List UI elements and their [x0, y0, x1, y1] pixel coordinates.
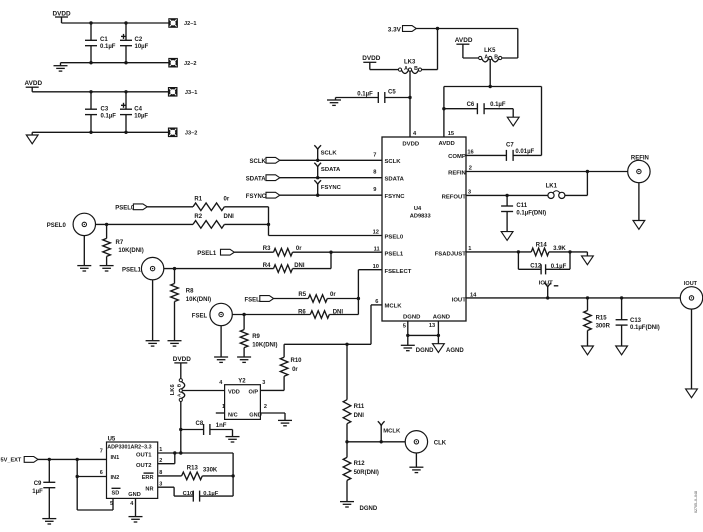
- tag PSEL0: [115, 204, 147, 212]
- U4 pin 9 FSYNC: [373, 187, 405, 200]
- connector FSEL BNC: [192, 303, 233, 325]
- wire J2 top rail: [62, 22, 169, 24]
- capacitor C11: [501, 195, 546, 231]
- svg-text:8: 8: [159, 470, 162, 476]
- tag FSEL: [245, 296, 274, 304]
- node C1 bottom: [89, 61, 92, 64]
- svg-text:AGND: AGND: [446, 348, 464, 354]
- svg-text:3: 3: [159, 481, 162, 487]
- svg-text:R6: R6: [298, 309, 306, 315]
- svg-text:LK5: LK5: [484, 48, 496, 54]
- svg-text:C1: C1: [100, 37, 108, 43]
- svg-text:ADP3301AR2–3.3: ADP3301AR2–3.3: [107, 445, 151, 451]
- capacitor C4: [120, 92, 148, 133]
- wire J3 bottom rail: [32, 131, 168, 133]
- svg-text:0.1µF: 0.1µF: [551, 264, 567, 270]
- node FSYNC tp: [316, 194, 319, 197]
- svg-text:FSYNC: FSYNC: [321, 185, 342, 191]
- svg-text:02705–0–048: 02705–0–048: [694, 491, 698, 513]
- power AVDD (J3 block): [25, 80, 43, 92]
- node SCLK tp: [316, 159, 319, 162]
- svg-text:3.9K: 3.9K: [553, 246, 566, 252]
- svg-text:FSYNC: FSYNC: [385, 194, 406, 200]
- svg-text:9: 9: [373, 187, 376, 193]
- wire FSYNC: [280, 194, 382, 196]
- svg-text:LK1: LK1: [546, 184, 558, 190]
- node OUT1 b: [179, 451, 182, 454]
- svg-text:FSELECT: FSELECT: [385, 269, 412, 275]
- node C2 top: [124, 21, 127, 24]
- svg-text:U5: U5: [108, 436, 116, 442]
- svg-text:DGND: DGND: [403, 314, 420, 320]
- wire MCLK bottom: [347, 441, 405, 443]
- U4 pin 10 FSELECT: [373, 264, 412, 275]
- svg-text:IN1: IN1: [111, 455, 120, 461]
- svg-text:1: 1: [468, 246, 471, 252]
- U4 pin 8 SDATA: [373, 169, 404, 182]
- tag 3.3V: [388, 26, 417, 34]
- regulator U5 body: [107, 436, 158, 498]
- node C3 bottom: [89, 131, 92, 134]
- svg-text:IN2: IN2: [111, 475, 120, 481]
- ground DGND: [401, 335, 434, 353]
- node R13 right: [231, 474, 234, 477]
- U5 pin 5 SD: [110, 488, 121, 507]
- svg-text:0.1µF: 0.1µF: [357, 92, 373, 98]
- node R1-R2: [267, 223, 270, 226]
- wire AGND pin 13: [437, 321, 439, 335]
- wire ERR to R13: [158, 475, 182, 477]
- capacitor C13: [616, 298, 660, 346]
- svg-text:PSEL0: PSEL0: [115, 206, 135, 212]
- svg-text:C9: C9: [34, 481, 42, 487]
- wire R4 to node: [293, 252, 332, 268]
- svg-text:DNI: DNI: [354, 413, 365, 419]
- node R7: [105, 223, 108, 226]
- svg-text:SDATA: SDATA: [246, 177, 266, 183]
- node C2 bottom: [124, 61, 127, 64]
- svg-text:FSADJUST: FSADJUST: [435, 251, 466, 257]
- wire R6 to node: [329, 314, 358, 316]
- svg-text:0r: 0r: [296, 246, 302, 252]
- svg-text:SCLK: SCLK: [385, 159, 402, 165]
- wire REFOUT: [466, 194, 548, 196]
- node LK1-REFIN: [586, 170, 589, 173]
- capacitor C8: [181, 421, 233, 435]
- wire LK6 to Y2 VDD: [182, 390, 224, 392]
- svg-text:FSEL: FSEL: [192, 314, 208, 320]
- connector IOUT BNC: [680, 281, 702, 309]
- svg-text:0.01µF: 0.01µF: [515, 149, 534, 155]
- resistor R4: [263, 263, 305, 272]
- wire Y2 output: [260, 389, 284, 391]
- ground R8: [168, 341, 182, 346]
- svg-text:13: 13: [429, 323, 435, 329]
- wire PSEL0 tag to R1: [147, 206, 193, 208]
- U4 pin 6 MCLK: [375, 299, 402, 309]
- svg-text:2: 2: [469, 166, 472, 172]
- wire 3.3V to LK3-B: [421, 29, 437, 70]
- wire SCLK: [280, 159, 382, 161]
- svg-text:11: 11: [374, 246, 380, 252]
- U4 pin 11 PSEL1: [374, 246, 404, 257]
- U4 pin 5 DGND: [403, 314, 421, 329]
- svg-text:AVDD: AVDD: [25, 80, 43, 87]
- svg-text:SCLK: SCLK: [250, 159, 267, 165]
- ground R15: [582, 346, 594, 355]
- capacitor C12: [518, 252, 570, 275]
- svg-text:N/C: N/C: [228, 412, 238, 418]
- U4 pin 7 SCLK: [373, 152, 401, 165]
- svg-text:R3: R3: [263, 246, 271, 252]
- testpoint MCLK: [378, 421, 401, 442]
- svg-text:6: 6: [375, 299, 378, 305]
- wire PSEL1 BNC to R4: [164, 268, 274, 270]
- node MCLK tp: [380, 440, 383, 443]
- node C3 top: [89, 90, 92, 93]
- svg-text:REFIN: REFIN: [448, 171, 466, 177]
- wire DVDD to LK3-A: [370, 69, 399, 71]
- connector J3-1: [168, 88, 197, 97]
- svg-text:C11: C11: [516, 203, 527, 209]
- ground C13: [616, 346, 628, 355]
- wire J3 top rail: [32, 91, 168, 93]
- wire LK5 to AVDD net: [489, 60, 491, 87]
- ground DGND R12: [340, 502, 378, 512]
- resistor R9: [240, 315, 277, 358]
- svg-text:AVDD: AVDD: [455, 37, 473, 44]
- capacitor C6: [444, 102, 513, 114]
- svg-text:10K(DNI): 10K(DNI): [252, 342, 277, 348]
- Y2 pin labels: [219, 380, 267, 418]
- capacitor C7: [466, 143, 542, 161]
- svg-text:7: 7: [373, 152, 376, 158]
- svg-text:PSEL0: PSEL0: [47, 223, 67, 229]
- ground REFIN BNC: [633, 183, 645, 230]
- wire FSEL BNC to R6: [232, 314, 310, 316]
- tag SDATA: [246, 175, 280, 183]
- ground FSADJUST: [570, 252, 593, 265]
- wire AVDD to LK5-A: [463, 57, 479, 59]
- svg-text:C8: C8: [196, 421, 204, 427]
- svg-text:DVDD: DVDD: [173, 356, 191, 363]
- U4 pin 12 PSEL0: [373, 229, 404, 240]
- svg-text:C10: C10: [183, 491, 194, 497]
- svg-text:C12: C12: [530, 264, 542, 270]
- svg-text:0r: 0r: [292, 367, 298, 373]
- wire PSEL1 tag to R3: [234, 251, 273, 253]
- ground C8: [226, 430, 240, 443]
- svg-text:R15: R15: [596, 316, 608, 322]
- node C13: [620, 296, 623, 299]
- svg-text:0.1µF: 0.1µF: [100, 44, 116, 50]
- U5 pin 1 OUT1: [136, 447, 162, 458]
- node R8: [173, 267, 176, 270]
- svg-text:ERR: ERR: [142, 475, 154, 481]
- svg-text:C6: C6: [467, 102, 475, 108]
- svg-text:MCLK: MCLK: [385, 303, 403, 309]
- svg-text:R13: R13: [187, 466, 199, 472]
- wire SDATA: [280, 177, 382, 179]
- svg-text:R5: R5: [298, 292, 306, 298]
- tag PSEL1: [197, 249, 234, 257]
- svg-text:O/P: O/P: [249, 390, 259, 396]
- tag FSYNC: [246, 192, 280, 200]
- wire FSADJUST: [466, 251, 531, 253]
- capacitor C3: [85, 92, 116, 133]
- svg-text:J3–1: J3–1: [185, 90, 197, 96]
- link LK5: [479, 48, 502, 62]
- U5 pin 7 IN1: [100, 448, 119, 461]
- resistor R10: [280, 344, 302, 390]
- node R14 left: [517, 250, 520, 253]
- svg-text:10K(DNI): 10K(DNI): [118, 248, 143, 254]
- svg-text:1nF: 1nF: [216, 423, 227, 429]
- svg-text:PSEL1: PSEL1: [385, 251, 404, 257]
- op-amp U4 AD9833 body: [382, 137, 466, 321]
- svg-text:12: 12: [373, 229, 379, 235]
- U4 pin 13 AGND: [429, 314, 450, 329]
- wire OUT2: [158, 453, 175, 464]
- svg-text:LK6: LK6: [170, 384, 176, 396]
- capacitor C1: [85, 23, 116, 63]
- svg-text:SDATA: SDATA: [385, 176, 405, 182]
- node R14 right: [568, 250, 571, 253]
- wire FSELECT vertical: [358, 270, 382, 315]
- tag SCLK: [250, 157, 280, 165]
- power AVDD (LK5): [455, 37, 473, 58]
- svg-text:C13: C13: [630, 318, 642, 324]
- svg-text:FSEL: FSEL: [245, 298, 261, 304]
- U5 pin 4 GND: [128, 492, 140, 507]
- ground C5: [327, 98, 341, 106]
- svg-text:R9: R9: [252, 334, 260, 340]
- svg-text:MCLK: MCLK: [383, 428, 401, 434]
- resistor R12: [343, 442, 379, 502]
- resistor R8: [171, 269, 211, 341]
- wire DGND pin 5: [407, 321, 409, 335]
- ground R7: [100, 266, 114, 271]
- svg-text:AVDD: AVDD: [439, 141, 455, 147]
- wire to pin 12: [269, 235, 383, 237]
- svg-text:7: 7: [100, 448, 103, 454]
- wire SD: [77, 477, 113, 511]
- link LK1: [546, 184, 565, 199]
- resistor R2: [193, 214, 234, 228]
- connector PSEL1 BNC: [122, 257, 164, 279]
- svg-text:B: B: [414, 66, 418, 72]
- svg-text:Y2: Y2: [238, 379, 246, 385]
- node AGND: [437, 334, 440, 337]
- wire MCLK pin 6: [284, 305, 382, 344]
- svg-text:SCLK: SCLK: [321, 151, 338, 157]
- ground C6: [507, 109, 519, 126]
- ground FSEL BNC: [214, 326, 228, 363]
- svg-text:R8: R8: [186, 288, 194, 294]
- wire IOUT: [466, 297, 680, 299]
- capacitor C10: [183, 491, 219, 502]
- wire DGND-AGND: [408, 334, 439, 336]
- ground AGND: [433, 335, 465, 353]
- svg-text:330K: 330K: [203, 467, 218, 473]
- svg-text:PSEL1: PSEL1: [197, 251, 217, 257]
- svg-text:REFIN: REFIN: [631, 155, 649, 161]
- node C5: [408, 96, 411, 99]
- svg-text:IOUT: IOUT: [539, 280, 553, 286]
- resistor R13: [182, 466, 218, 480]
- ground C11: [501, 232, 513, 241]
- svg-text:DNI: DNI: [224, 214, 235, 220]
- wire LK6 down: [180, 402, 182, 454]
- svg-text:IOUT: IOUT: [684, 281, 698, 287]
- node IN2 branch: [76, 458, 79, 461]
- wire FSEL tag to R5: [274, 298, 309, 300]
- svg-text:R2: R2: [194, 214, 202, 220]
- svg-text:2: 2: [159, 458, 162, 464]
- testpoint SDATA: [314, 163, 341, 178]
- node DGND: [406, 334, 409, 337]
- resistor R1: [193, 196, 230, 210]
- svg-text:R1: R1: [194, 196, 202, 202]
- svg-text:R7: R7: [116, 240, 124, 246]
- svg-text:GND: GND: [249, 412, 261, 418]
- node R5-R6: [357, 297, 360, 300]
- U4 pin 16 COMP: [448, 150, 474, 161]
- svg-text:C4: C4: [134, 106, 142, 112]
- svg-text:J2–2: J2–2: [184, 61, 196, 67]
- svg-text:B: B: [494, 55, 498, 61]
- capacitor C5: [336, 90, 411, 104]
- ground C9: [42, 519, 56, 524]
- svg-text:0.1µF: 0.1µF: [101, 113, 117, 119]
- U5 pin 6 IN2: [100, 470, 119, 481]
- svg-text:3: 3: [468, 189, 471, 195]
- ground PSEL0 BNC: [77, 236, 91, 271]
- capacitor C2: [120, 23, 149, 63]
- connector J3-2: [168, 128, 197, 137]
- node C8: [179, 428, 182, 431]
- svg-text:0.1µF(DNI): 0.1µF(DNI): [630, 325, 660, 331]
- svg-text:5: 5: [403, 323, 406, 329]
- wire R5 to node: [327, 298, 358, 300]
- ground J3: [26, 132, 38, 144]
- ground U5 GND: [129, 498, 143, 522]
- node OUT1 a: [173, 451, 176, 454]
- svg-text:A: A: [484, 55, 488, 61]
- svg-text:LK3: LK3: [404, 60, 416, 66]
- wire J2 bottom rail: [61, 62, 169, 64]
- wire REFIN: [466, 171, 628, 173]
- wire 3.3V to LK5-B: [502, 29, 518, 59]
- resistor R5: [298, 292, 336, 302]
- wire AVDD net left to pin 15: [443, 87, 445, 138]
- node C9: [48, 458, 51, 461]
- power DVDD (Y2): [173, 356, 191, 378]
- svg-text:OUT2: OUT2: [136, 463, 151, 469]
- svg-text:1µF: 1µF: [32, 489, 43, 495]
- wire R14 right: [549, 251, 570, 253]
- svg-text:8: 8: [373, 169, 376, 175]
- svg-text:R4: R4: [263, 263, 271, 269]
- svg-text:3: 3: [262, 380, 265, 386]
- connector REFIN BNC: [628, 155, 650, 182]
- capacitor C9: [32, 459, 55, 518]
- ground J2: [54, 63, 68, 71]
- svg-text:15: 15: [448, 131, 454, 137]
- U5 pin 2 OUT2: [136, 458, 162, 469]
- svg-text:J2–1: J2–1: [184, 21, 196, 27]
- connector J2-2: [169, 58, 197, 67]
- Y2 N/C stub: [216, 412, 225, 414]
- node SDATA tp: [316, 176, 319, 179]
- U4 pin 15 label: [439, 131, 455, 147]
- node C4 top: [124, 90, 127, 93]
- svg-text:R11: R11: [354, 404, 365, 410]
- resistor R14: [531, 242, 566, 255]
- wire 5V_EXT to IN1: [38, 458, 107, 460]
- svg-text:2: 2: [264, 404, 267, 410]
- svg-text:PSEL1: PSEL1: [122, 268, 142, 274]
- ground R9: [237, 357, 251, 362]
- svg-text:6: 6: [100, 470, 103, 476]
- svg-text:DVDD: DVDD: [53, 10, 71, 17]
- svg-text:0r: 0r: [330, 292, 336, 298]
- svg-text:A: A: [404, 66, 408, 72]
- node C4 bottom: [124, 131, 127, 134]
- svg-text:SDATA: SDATA: [321, 167, 341, 173]
- svg-text:DVDD: DVDD: [402, 141, 419, 147]
- svg-text:0.1µF: 0.1µF: [490, 102, 506, 108]
- ground PSEL1 BNC: [146, 280, 160, 346]
- svg-text:AD9833: AD9833: [410, 213, 431, 219]
- svg-text:16: 16: [467, 150, 473, 156]
- U4 pin 3 REFOUT: [442, 189, 471, 200]
- svg-text:REFOUT: REFOUT: [442, 194, 467, 200]
- svg-text:300R: 300R: [596, 324, 611, 330]
- node C6: [442, 107, 445, 110]
- svg-text:3.3V: 3.3V: [388, 27, 402, 34]
- U5 pin 3 NR: [145, 481, 162, 492]
- U4 pin 14 IOUT: [452, 293, 477, 304]
- svg-text:10: 10: [373, 264, 379, 270]
- power DVDD (J2 block): [53, 10, 71, 23]
- svg-text:COMP: COMP: [448, 154, 466, 160]
- resistor R6: [298, 309, 343, 318]
- testpoint SCLK: [314, 145, 337, 160]
- wire R3 to node: [293, 251, 383, 253]
- svg-text:R12: R12: [354, 461, 366, 467]
- power DVDD (LK3): [362, 55, 380, 69]
- tag 5V_EXT: [1, 457, 39, 464]
- svg-text:DVDD: DVDD: [362, 55, 380, 62]
- node 3.3V junction: [436, 27, 439, 30]
- U4 pin 1 FSADJUST: [435, 246, 472, 257]
- node SD branch: [76, 475, 79, 478]
- node R9: [242, 313, 245, 316]
- node C11: [505, 194, 508, 197]
- connector CLK BNC: [405, 431, 447, 453]
- ground Y2 GND: [260, 413, 292, 426]
- svg-text:CLK: CLK: [434, 440, 447, 446]
- testpoint FSYNC: [314, 180, 341, 195]
- svg-text:PSEL0: PSEL0: [385, 235, 404, 241]
- svg-text:1: 1: [222, 404, 225, 410]
- svg-text:50R(DNI): 50R(DNI): [354, 470, 379, 476]
- svg-text:VDD: VDD: [228, 390, 240, 396]
- wire AVDD net rail: [444, 86, 542, 88]
- svg-text:NR: NR: [145, 487, 153, 493]
- svg-text:FSYNC: FSYNC: [246, 194, 267, 200]
